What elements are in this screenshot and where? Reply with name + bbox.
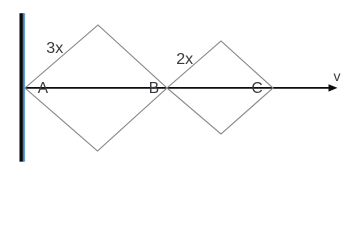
big pulse envelope (diamond A-B) <box>25 25 167 151</box>
svg-text:A: A <box>38 80 49 97</box>
svg-text:3x: 3x <box>46 40 63 57</box>
svg-text:C: C <box>252 80 263 97</box>
wire: horizontal string line with velocity arrow <box>25 87 331 89</box>
svg-text:v: v <box>334 68 341 84</box>
arrowhead of v <box>329 84 338 91</box>
svg-text:2x: 2x <box>176 51 193 68</box>
svg-text:B: B <box>149 80 159 97</box>
small pulse envelope (diamond B-C) <box>167 41 273 134</box>
